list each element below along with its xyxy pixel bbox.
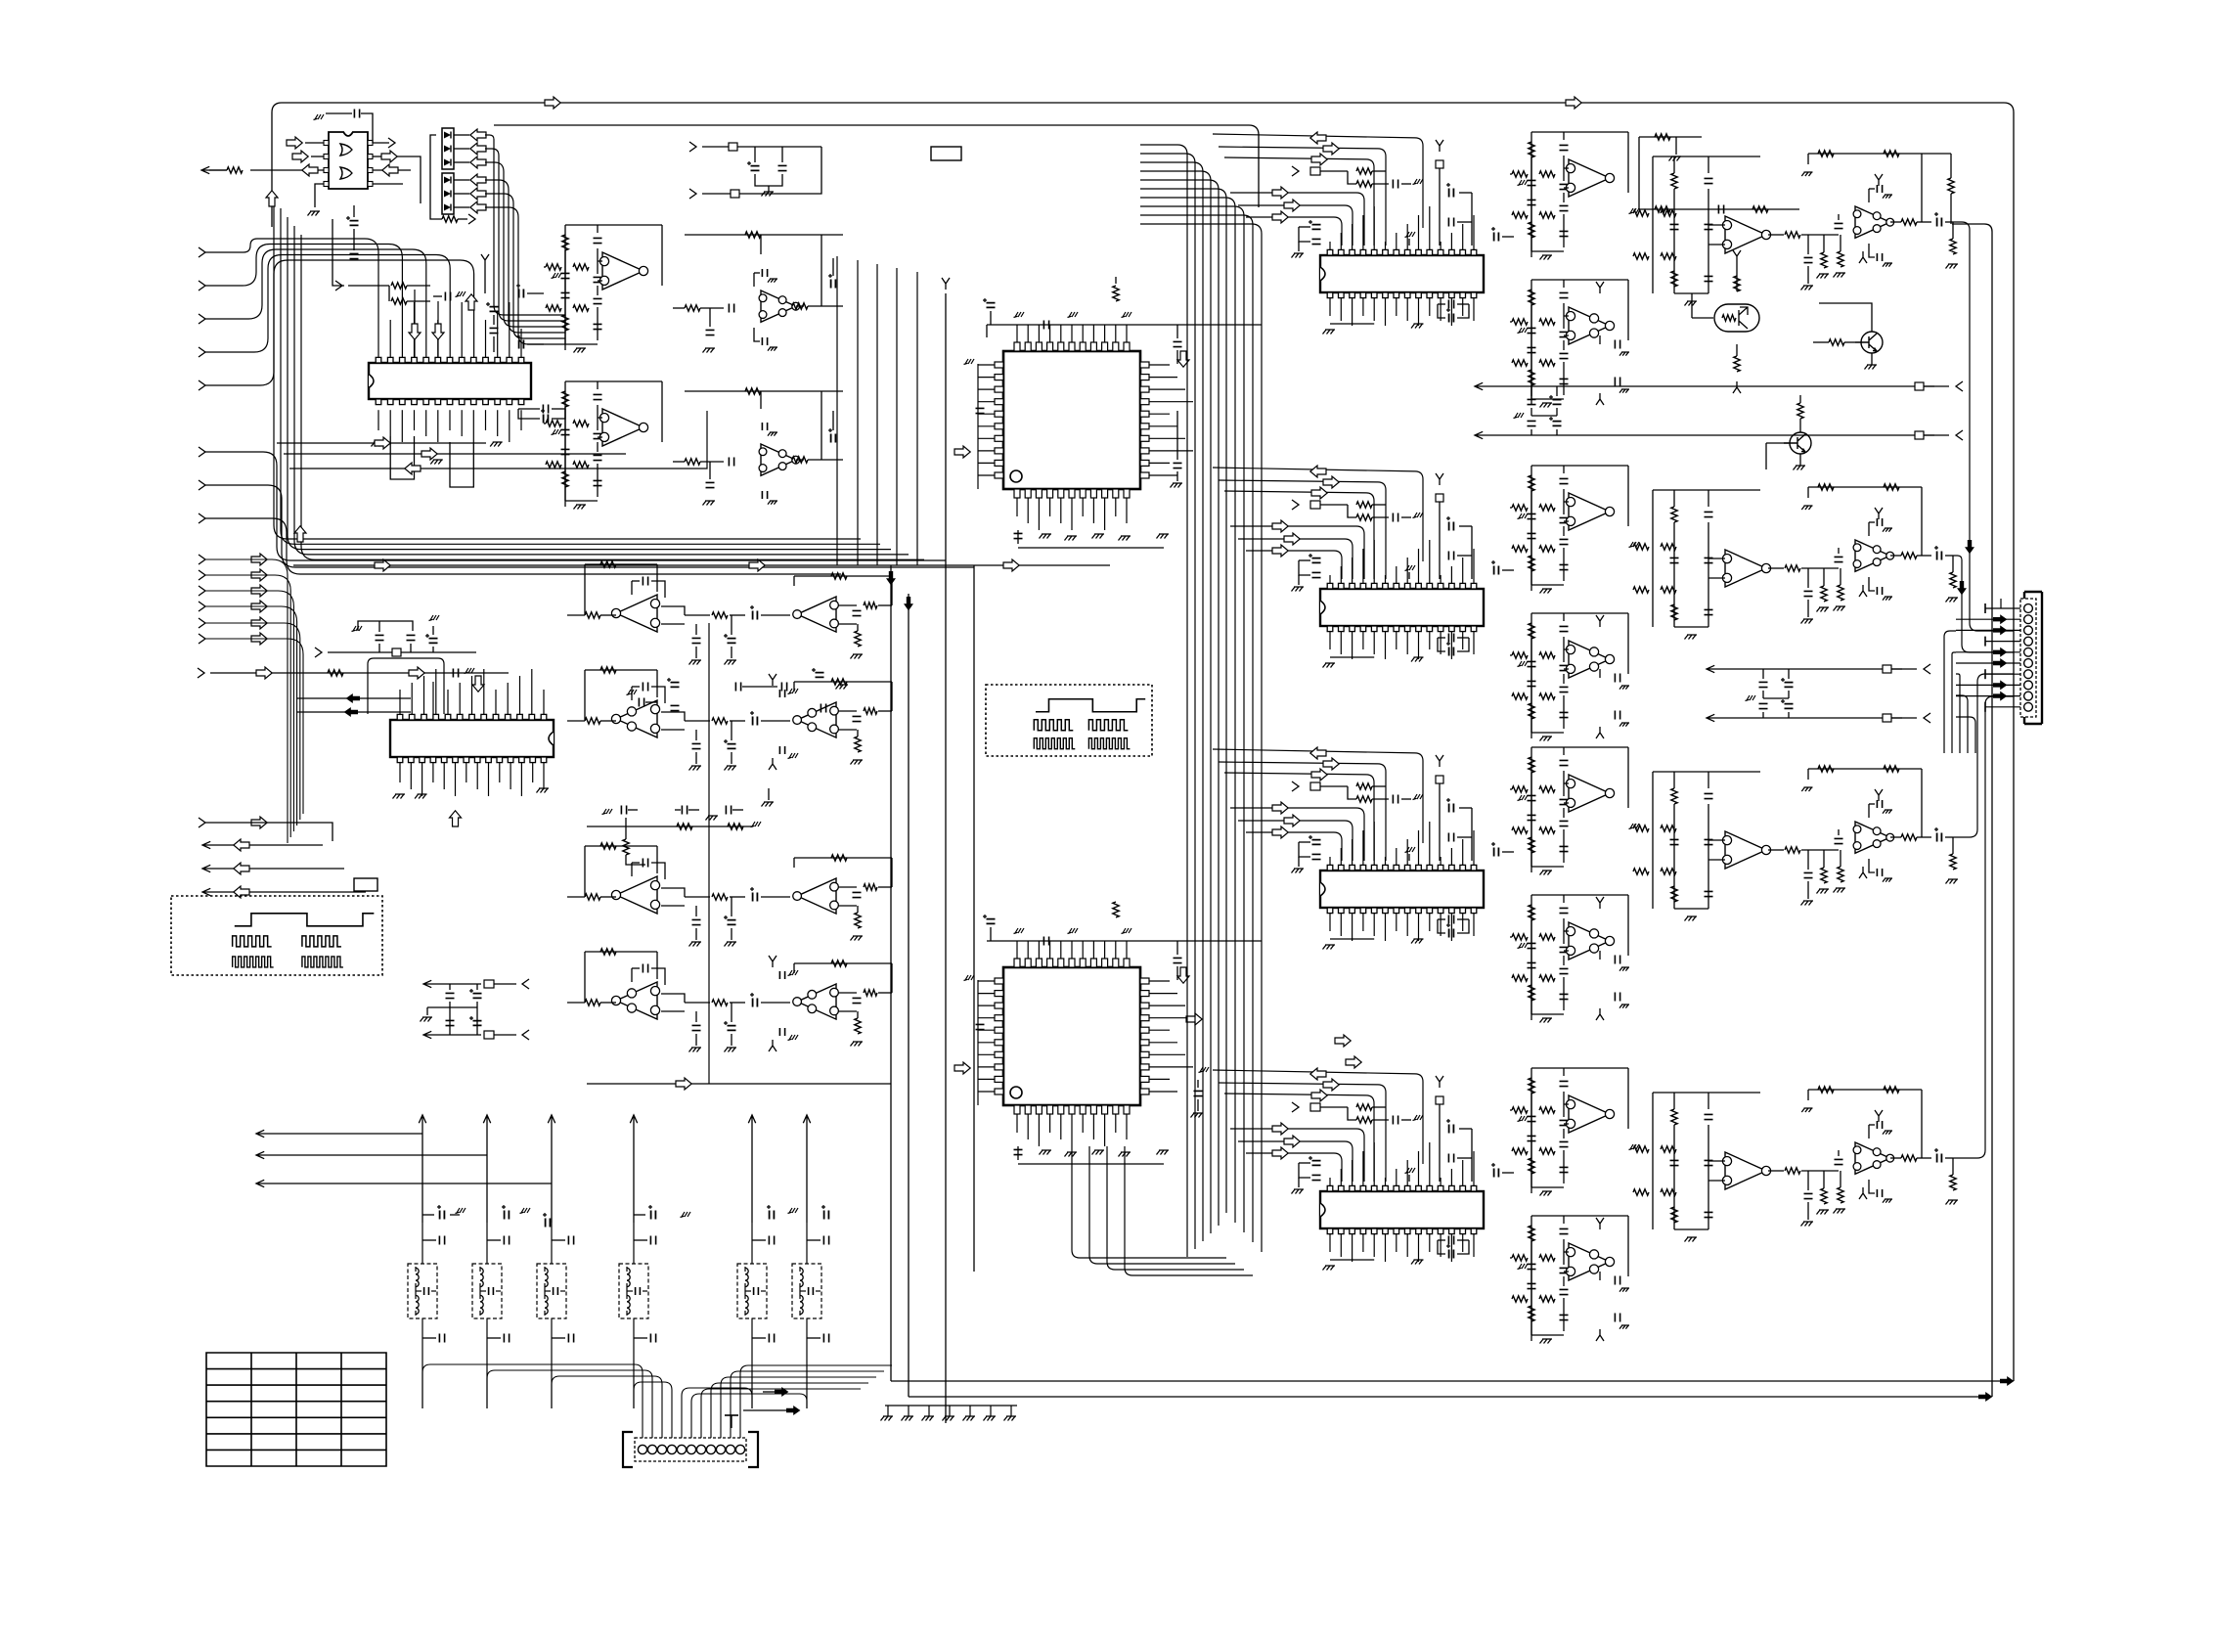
parts table: [206, 1353, 386, 1466]
input row res: [335, 281, 342, 290]
cap to gnd: [1807, 568, 1809, 588]
input chevron C: [199, 818, 205, 827]
+cap: [1937, 833, 1942, 842]
barrow down right of QFP1: [1177, 351, 1189, 367]
cap to gnd: [1807, 235, 1809, 254]
inductor filter boxes: [408, 1264, 437, 1318]
cap C: [1615, 340, 1619, 349]
QFP2 bottom to bus: [1072, 1146, 1226, 1258]
chev input: [1292, 781, 1299, 791]
power fork: [1875, 1110, 1883, 1122]
mid cluster caps right of IC2: [639, 698, 643, 707]
ecap loop: [1312, 225, 1321, 230]
chev rect line above IC2: [315, 647, 322, 657]
electrolytic caps above inductors: [440, 1211, 445, 1220]
amp row 1: [616, 595, 657, 632]
barrow into QFP1: [954, 446, 970, 458]
ecap under inter-amp: [728, 1026, 736, 1031]
arrows right of connector: [775, 1387, 788, 1397]
fork: [481, 254, 489, 266]
barrows right of QFP2: [1186, 1013, 1202, 1025]
QFP1 top res: [1113, 286, 1119, 301]
barrow down pair: [414, 290, 416, 358]
gnd-cap row below IC2: [602, 809, 613, 815]
vertical bus bundle: [1140, 145, 1187, 1257]
antenna T: [731, 1415, 732, 1428]
IC U7 DIP: [1320, 589, 1484, 626]
cap/gnd pair: [1877, 185, 1882, 193]
cap/gnd pair: [1877, 518, 1882, 526]
cap pair bottom right of IC1: [543, 405, 548, 414]
fork caps: [769, 956, 776, 967]
ecap pair left of IC U2: [350, 221, 359, 226]
supply caps cluster: [423, 980, 460, 987]
second res row: [1639, 208, 1799, 210]
res to gnd: [1821, 252, 1827, 268]
ecap right: [1494, 566, 1499, 575]
QFP2 top wires: [987, 940, 1262, 942]
res pair: [1356, 1104, 1372, 1110]
cap to gnd: [1807, 850, 1809, 870]
power fork: [1875, 789, 1883, 801]
amp row 3: [616, 876, 657, 914]
QFP2 bottom wires: [1016, 1114, 1018, 1133]
buffer op-amp: [1835, 1159, 1843, 1164]
amp B: [797, 878, 836, 914]
op-amp: [1725, 550, 1766, 587]
ecap right: [1494, 233, 1499, 242]
QFP1 left wires: [977, 364, 979, 489]
waveform legend left: [171, 896, 382, 975]
gnd join below IC U8 DIP: [1330, 938, 1374, 940]
ecap col: [1449, 1125, 1454, 1134]
buffer op-amp: [1835, 838, 1843, 843]
QFP2 right wires: [1149, 980, 1170, 982]
res to gnd: [1821, 586, 1827, 602]
wires from diode box right: [485, 135, 565, 315]
cap C: [1615, 956, 1619, 964]
QFP2 left wires: [977, 980, 979, 1105]
ecap right: [1494, 848, 1499, 857]
fork Y column: [1436, 473, 1443, 485]
cap/gnd pair: [1877, 800, 1882, 808]
chev input: [1292, 1102, 1299, 1112]
diode array 2: [442, 173, 454, 214]
ecap pair below IC U9 DIP: [1449, 1250, 1454, 1259]
QFP IC U4: [1003, 967, 1140, 1105]
QFP1 top wires: [987, 324, 1262, 326]
+cap top left QFP2: [987, 919, 996, 924]
left solid arrows mid: [296, 697, 411, 699]
feedback rail: [1808, 486, 1922, 488]
left long arrows: [256, 1130, 422, 1137]
cap under inter-amp: [692, 743, 701, 748]
barrow up marks: [266, 191, 278, 206]
vertical bundle to QFP1: [836, 256, 838, 565]
buffer B: [673, 461, 685, 463]
IC U5 top pin wires: [399, 690, 401, 714]
up arrow verticals: [419, 1115, 425, 1223]
filter block: [1531, 465, 1628, 467]
amp row 4: [616, 982, 657, 1019]
ecap col right of IC1: [490, 307, 499, 312]
right inner vertical: [1952, 224, 1992, 1397]
op-amp: [1725, 831, 1766, 869]
op-amp: [1725, 1152, 1766, 1189]
+cap: [1937, 552, 1942, 560]
ecap pair below IC U6 DIP: [1449, 314, 1454, 323]
ecap under inter-amp: [728, 639, 736, 644]
second top wire: [494, 125, 1259, 207]
cap under inter-amp: [692, 919, 701, 924]
hline lower: [587, 1083, 891, 1085]
amp B: [797, 702, 836, 737]
cap C: [1615, 674, 1619, 683]
filter block: [1531, 894, 1628, 896]
ecap loop: [1312, 558, 1321, 563]
QFP2 top res: [1113, 902, 1119, 917]
barrow into QFP2: [954, 1062, 970, 1074]
cap C: [1615, 378, 1619, 386]
gnd join below IC U7 DIP: [1330, 656, 1374, 658]
fork caps: [769, 674, 776, 686]
ecap loop: [1312, 840, 1321, 845]
cap right top QFP1: [1174, 341, 1182, 346]
barrow lines to pins: [1230, 193, 1364, 246]
bus taps w/ arrows: [1213, 134, 1423, 228]
center vertical bus 2: [942, 278, 950, 290]
vertical x725: [708, 623, 710, 1084]
caps below inductor boxes: [439, 1334, 444, 1343]
amp row 2: [616, 700, 657, 737]
diode array 1: [442, 128, 454, 169]
stage2 filter: [1653, 1092, 1760, 1094]
arrow down above IC2: [472, 676, 484, 692]
barrow lines to pins: [1230, 808, 1364, 861]
IC U8 DIP: [1320, 871, 1484, 908]
filter cluster B: [565, 380, 662, 382]
bus taps w/ arrows: [1213, 749, 1423, 843]
amp B: [797, 597, 836, 632]
+cap: [1937, 1154, 1942, 1163]
IC U2 DIP: [369, 363, 531, 399]
feedback rail: [1808, 1089, 1922, 1091]
buffer op-amp: [1835, 557, 1843, 561]
op-amp: [1725, 216, 1766, 253]
buffer A: [673, 307, 685, 309]
center vertical bus: [890, 565, 892, 1381]
label box: [931, 147, 961, 160]
cap gnd right of IC1: [445, 292, 450, 301]
ecap pair below IC U7 DIP: [1449, 647, 1454, 656]
res wire between rows: [587, 826, 753, 827]
connector feeds: [1985, 607, 2020, 609]
quad gate IC U1: [329, 132, 368, 189]
gnd cap above gate: [314, 114, 325, 120]
filter block: [1531, 131, 1628, 133]
barrow up below IC2: [450, 811, 462, 826]
transistor Q2: [1861, 332, 1883, 353]
pin4 loop: [432, 682, 434, 714]
res pair: [1356, 502, 1372, 508]
power fork: [1596, 282, 1604, 293]
input chevrons B: [199, 555, 205, 564]
supply cluster right-mid: [1707, 665, 1746, 672]
input chevrons A: [199, 247, 205, 257]
bus taps w/ arrows: [1213, 468, 1423, 561]
right res column: [1922, 153, 1951, 155]
res below diodes: [442, 216, 458, 222]
ecap h right: [519, 290, 524, 298]
buffer op-amp: [1835, 223, 1843, 228]
gnd join below IC U6 DIP: [1330, 323, 1374, 325]
+cap: [1937, 218, 1942, 227]
gate wires: [305, 142, 324, 144]
cap to gnd: [1807, 1171, 1809, 1190]
IC U2 bottom pin wires: [377, 410, 379, 430]
ecap col: [1449, 189, 1454, 198]
bottom bus wires: [891, 1380, 2001, 1382]
IC U2 top pin wires: [389, 320, 391, 357]
cap C: [1615, 1276, 1619, 1285]
filter block: [1531, 1215, 1628, 1217]
cap C: [1615, 711, 1619, 720]
IC U5 DIP: [390, 720, 554, 757]
res below IC2: [623, 839, 629, 855]
cap under inter-amp: [692, 1025, 701, 1030]
ecap under inter-amp: [728, 920, 736, 925]
hline mid: [293, 564, 1110, 566]
+cap top left QFP1: [987, 303, 996, 308]
power fork: [1596, 1218, 1604, 1229]
top mid cluster: [689, 142, 696, 152]
ecap loop: [1312, 1161, 1321, 1166]
waveform legend middle: [986, 685, 1152, 756]
ecap under inter-amp: [728, 744, 736, 749]
res pair: [1356, 783, 1372, 789]
bottom connector CN1: [623, 1432, 758, 1467]
stage2 filter: [1653, 489, 1760, 491]
stage2 filter: [1653, 771, 1760, 773]
fork Y column: [1436, 140, 1443, 152]
top right cluster: [1639, 136, 1702, 138]
res to gnd: [1821, 868, 1827, 883]
ground row: [885, 1405, 1017, 1406]
filter block: [1531, 279, 1628, 281]
cap loop above IC2: [352, 626, 363, 632]
fork Y column: [1436, 1076, 1443, 1088]
res to gnd: [1821, 1188, 1827, 1204]
ecap pair below IC U8 DIP: [1449, 929, 1454, 938]
filter block: [1531, 746, 1628, 748]
gnd join below IC U9 DIP: [1330, 1259, 1374, 1261]
transistor Q1 oval: [1714, 304, 1759, 332]
barrow wires below IC1: [277, 442, 486, 444]
ecap col: [1449, 522, 1454, 531]
cap right of QFP2: [1194, 1091, 1203, 1095]
small box: [354, 878, 377, 891]
ecap stub above IC2: [429, 615, 440, 621]
ecap col: [1449, 804, 1454, 813]
outer top bus wire: [272, 103, 2014, 1381]
channel out wires: [1965, 540, 1974, 554]
bus arrow: [545, 97, 560, 109]
chev line y688: [198, 668, 204, 678]
bus taps w/ arrows: [1213, 1070, 1423, 1164]
IC U6 DIP: [1320, 255, 1484, 292]
edge connector CN2: [2024, 592, 2042, 724]
QFP IC U3: [1003, 351, 1140, 489]
filter block: [1531, 1067, 1628, 1069]
QFP1 right wires: [1149, 364, 1170, 366]
cap/gnd pair: [1877, 1121, 1882, 1129]
connector feed wires: [422, 1364, 643, 1438]
ecap right: [1494, 1169, 1499, 1178]
horizontal bundle: [274, 200, 861, 539]
barrow up right of IC1: [466, 294, 477, 310]
cap C: [1615, 993, 1619, 1002]
QFP1 bottom wires: [1016, 498, 1018, 516]
IC U9 DIP: [1320, 1191, 1484, 1228]
IC U5 bottom pin wires: [399, 763, 401, 782]
power fork: [1596, 615, 1604, 627]
cap under inter-amp: [692, 638, 701, 643]
fork Y column: [1436, 755, 1443, 767]
amp B: [797, 984, 836, 1019]
transistor Q3: [1790, 432, 1811, 454]
barrow lines to pins: [1230, 526, 1364, 579]
res pair: [1356, 168, 1372, 174]
feedback rail: [1808, 153, 1922, 155]
filter block: [1531, 612, 1628, 614]
chev input: [1292, 500, 1299, 510]
chev input: [1292, 166, 1299, 176]
caps above inductor boxes: [439, 1236, 444, 1245]
supply cluster right-top: [1475, 382, 1514, 389]
cap right top QFP2: [1174, 958, 1182, 962]
cap C: [1615, 1314, 1619, 1322]
filter cluster A: [565, 224, 662, 226]
power fork: [1875, 174, 1883, 186]
power fork: [1875, 508, 1883, 519]
barrow lines to pins: [1230, 1129, 1364, 1182]
feedback rail: [1808, 768, 1922, 770]
left out arrows: [202, 841, 323, 848]
stage2 filter: [1653, 156, 1760, 157]
power fork: [1596, 897, 1604, 909]
